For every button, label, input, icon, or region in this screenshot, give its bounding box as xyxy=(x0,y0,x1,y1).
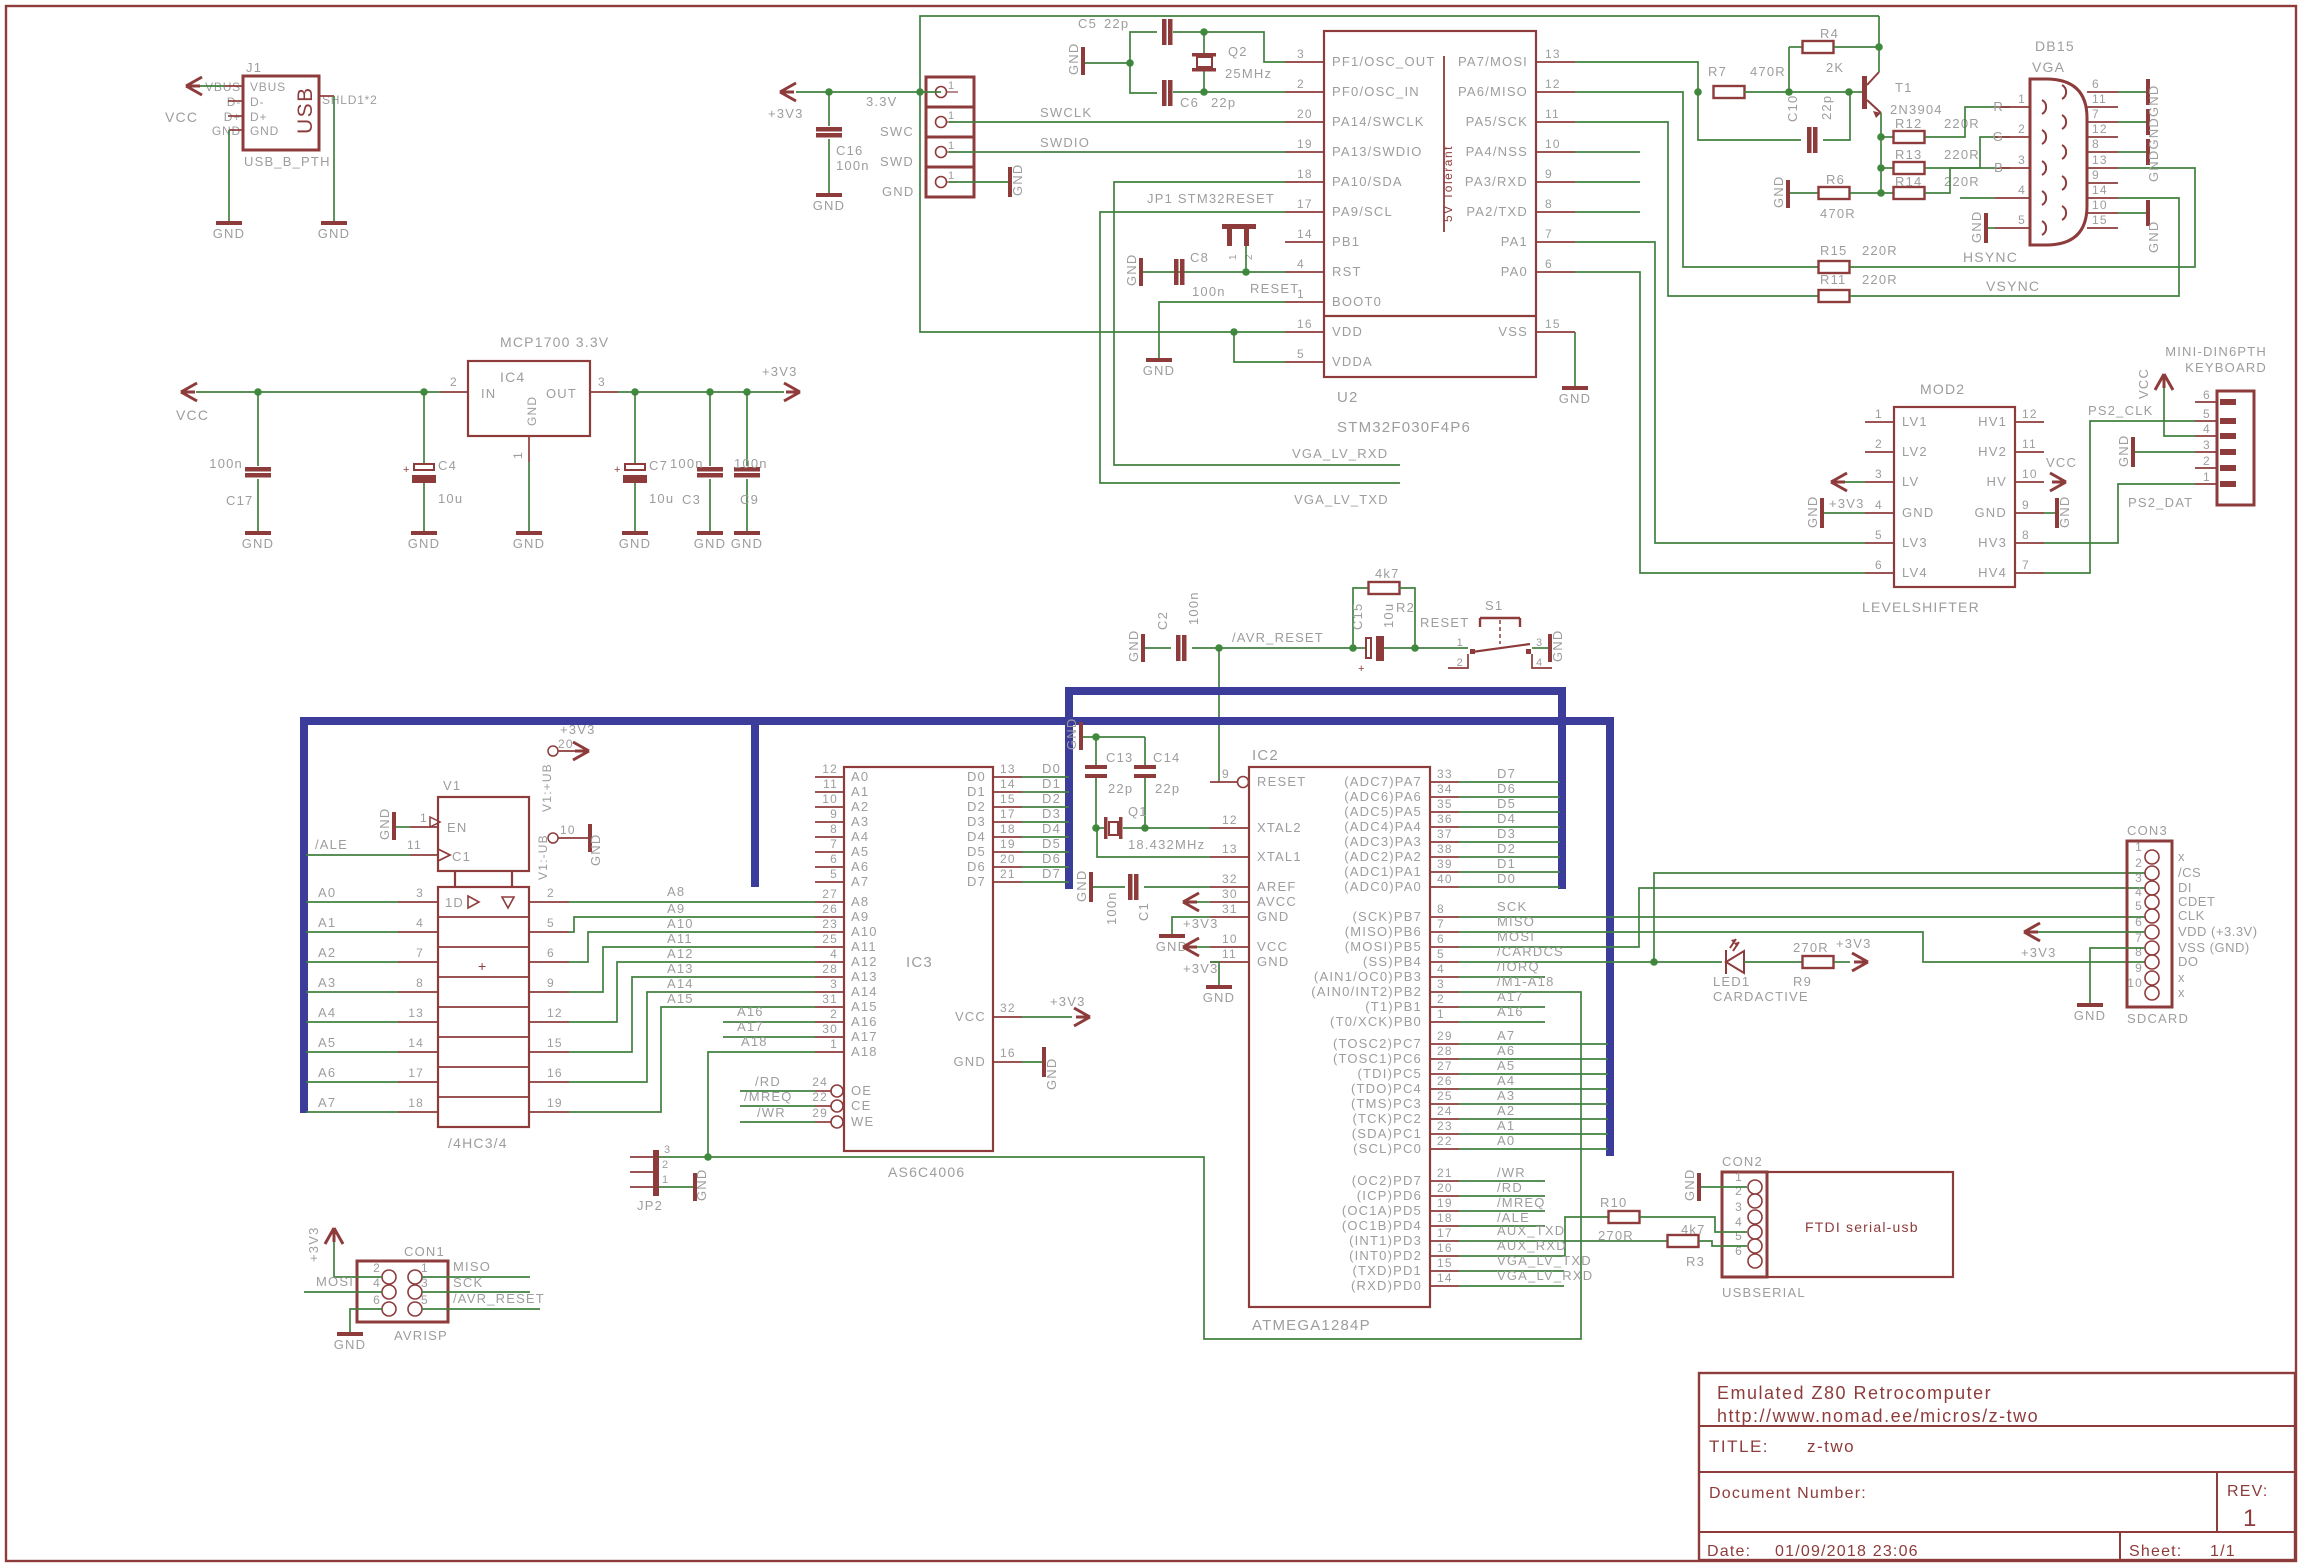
svg-text:2: 2 xyxy=(1875,437,1883,451)
svg-text:G: G xyxy=(1993,129,2004,144)
svg-text:B: B xyxy=(1994,160,2004,175)
junction RST xyxy=(1242,268,1250,276)
wire SCK (CON1) xyxy=(422,1275,530,1292)
junction base node xyxy=(1845,88,1853,96)
wire D0 (IC2) xyxy=(1459,871,1560,887)
svg-text:C6: C6 xyxy=(1180,95,1199,110)
svg-text:DB15: DB15 xyxy=(2035,38,2075,54)
svg-text:13: 13 xyxy=(1000,762,1016,776)
wire C2 left xyxy=(1145,647,1171,649)
svg-text:22p: 22p xyxy=(1211,95,1236,110)
svg-text:A4: A4 xyxy=(851,829,869,844)
svg-text:1: 1 xyxy=(948,140,955,152)
svg-text:VSYNC: VSYNC xyxy=(1986,278,2040,294)
ground (USB shield) xyxy=(318,221,351,241)
svg-text:PF0/OSC_IN: PF0/OSC_IN xyxy=(1332,84,1420,99)
wire D0 (IC3) xyxy=(1022,761,1069,777)
junction base/R4 xyxy=(1785,88,1793,96)
svg-text:100n: 100n xyxy=(836,158,870,173)
svg-text:C9: C9 xyxy=(740,492,759,507)
svg-text:4k7: 4k7 xyxy=(1375,566,1400,581)
svg-text:x: x xyxy=(2178,849,2185,864)
svg-text:MOD2: MOD2 xyxy=(1920,381,1965,397)
svg-text:A7: A7 xyxy=(851,874,869,889)
junction C15 right xyxy=(1411,644,1419,652)
svg-text:11: 11 xyxy=(1545,107,1560,121)
ground (VSS) xyxy=(1559,386,1592,406)
svg-text:(TCK)PC2: (TCK)PC2 xyxy=(1352,1111,1422,1126)
supply +3V3 (regulator out) xyxy=(762,364,800,401)
svg-text:GND: GND xyxy=(694,1169,709,1202)
svg-text:IC3: IC3 xyxy=(906,954,933,971)
junction C17 xyxy=(254,388,262,396)
wire /WR stub xyxy=(1459,1165,1545,1181)
svg-text:S1: S1 xyxy=(1485,598,1503,613)
svg-text:+3V3: +3V3 xyxy=(1829,496,1865,511)
SRAM IC3 AS6C4008 xyxy=(812,762,1022,1180)
svg-text:3: 3 xyxy=(421,1276,429,1290)
supply VCC (USB) xyxy=(165,77,202,125)
svg-text:23: 23 xyxy=(1437,1119,1453,1133)
svg-text:A18: A18 xyxy=(741,1034,768,1049)
svg-text:220R: 220R xyxy=(1944,147,1980,162)
svg-text:+: + xyxy=(403,464,411,476)
svg-text:A3: A3 xyxy=(851,814,869,829)
svg-text:A6: A6 xyxy=(318,1065,336,1080)
svg-text:20: 20 xyxy=(1437,1181,1453,1195)
svg-text:RESET: RESET xyxy=(1257,774,1306,789)
svg-text:D3: D3 xyxy=(967,814,986,829)
svg-text:1: 1 xyxy=(1228,253,1239,260)
svg-text:11: 11 xyxy=(823,777,838,791)
ground (C3) xyxy=(694,531,727,551)
wire R11 to pin14 xyxy=(1850,198,2179,296)
svg-text:+: + xyxy=(1358,663,1366,675)
svg-text:10: 10 xyxy=(560,823,576,837)
svg-text:470R: 470R xyxy=(1750,64,1786,79)
svg-text:26: 26 xyxy=(1437,1074,1453,1088)
svg-text:/IORQ: /IORQ xyxy=(1497,959,1540,974)
svg-text:R11: R11 xyxy=(1820,272,1846,287)
wire A11 xyxy=(569,931,815,992)
wire C6 branch xyxy=(1130,63,1157,93)
svg-text:GND: GND xyxy=(694,536,727,551)
svg-text:(SCK)PB7: (SCK)PB7 xyxy=(1352,909,1422,924)
wire D5 (IC2) xyxy=(1459,796,1560,812)
wire D2 (IC3) xyxy=(1022,791,1069,807)
junction VDDA tap xyxy=(1230,328,1238,336)
svg-text:13: 13 xyxy=(1545,47,1561,61)
svg-text:2: 2 xyxy=(1457,657,1464,669)
wire PA4 stub xyxy=(1575,151,1640,153)
svg-text:+3V3: +3V3 xyxy=(560,722,596,737)
svg-text:TITLE:: TITLE: xyxy=(1709,1437,1769,1456)
svg-text:9: 9 xyxy=(2092,168,2100,182)
capacitor C13 xyxy=(1085,737,1133,828)
svg-text:18: 18 xyxy=(1000,822,1016,836)
ground (VGA gnd2) xyxy=(2118,109,2150,135)
junction Q2 bottom xyxy=(1200,88,1208,96)
connector DB15 VGA xyxy=(1993,38,2118,245)
svg-text:37: 37 xyxy=(1437,827,1453,841)
svg-text:1: 1 xyxy=(1735,1170,1743,1184)
svg-text:VCC: VCC xyxy=(2136,368,2151,399)
svg-text:GND: GND xyxy=(1257,909,1290,924)
svg-text:/RD: /RD xyxy=(755,1074,781,1089)
wire D4 (IC2) xyxy=(1459,811,1560,827)
latch V1 74HC374 xyxy=(430,778,529,1151)
wire A8 xyxy=(569,884,815,902)
svg-text:C15: C15 xyxy=(1350,603,1365,630)
wire A4 addr xyxy=(1459,1073,1608,1089)
svg-text:(TMS)PC3: (TMS)PC3 xyxy=(1351,1096,1422,1111)
junction AVR_RESET xyxy=(1215,644,1223,652)
svg-text:15: 15 xyxy=(547,1036,563,1050)
wire PA7 to R7 xyxy=(1575,62,1698,92)
svg-text:11: 11 xyxy=(2092,92,2107,106)
wire A3 addr xyxy=(1459,1088,1608,1104)
svg-text:3: 3 xyxy=(1297,47,1305,61)
svg-text:4: 4 xyxy=(1875,498,1883,512)
svg-text:GND: GND xyxy=(954,1054,987,1069)
svg-text:4: 4 xyxy=(1536,657,1543,669)
svg-text:VGA_LV_TXD: VGA_LV_TXD xyxy=(1497,1253,1592,1268)
capacitor C15 xyxy=(1350,603,1415,675)
regulator IC4 box xyxy=(440,334,618,462)
wire R7-base xyxy=(1744,91,1789,93)
svg-text:EN: EN xyxy=(447,820,467,835)
resistor R13 xyxy=(1881,147,1980,174)
switch S1 xyxy=(1420,598,1552,669)
wire R15 to pin13 xyxy=(1850,168,2195,267)
svg-text:D0: D0 xyxy=(1497,871,1516,886)
svg-text:HSYNC: HSYNC xyxy=(1963,249,2018,265)
svg-text:GND: GND xyxy=(525,396,539,426)
svg-text:A17: A17 xyxy=(851,1029,878,1044)
supply VCC (regulator input) xyxy=(176,383,209,423)
svg-text:3: 3 xyxy=(416,886,424,900)
wire A3 to V1 xyxy=(306,975,569,992)
svg-text:4: 4 xyxy=(830,947,838,961)
svg-text:12: 12 xyxy=(1545,77,1561,91)
svg-text:+: + xyxy=(478,958,487,974)
svg-text:4: 4 xyxy=(1297,257,1305,271)
svg-text:A5: A5 xyxy=(318,1035,336,1050)
wire A16 stub xyxy=(723,1004,815,1022)
ground (IC3) xyxy=(1022,1047,1059,1090)
supply +3V3 (IC3) xyxy=(1022,994,1090,1026)
svg-text:R9: R9 xyxy=(1793,974,1812,989)
svg-text:GND: GND xyxy=(1975,505,2008,520)
svg-text:A12: A12 xyxy=(851,954,878,969)
ground (SWD pin4) xyxy=(1008,164,1025,198)
wire HSYNC xyxy=(1575,92,2018,267)
wire /CARDCS net xyxy=(1459,944,1654,962)
wire A7 to V1 xyxy=(306,1095,569,1112)
ground (IC4 GND pin) xyxy=(513,462,546,551)
microcontroller U2 STM32F030F4P6 xyxy=(1285,31,1575,436)
svg-text:C13: C13 xyxy=(1106,750,1133,765)
wire +3V3 rail xyxy=(618,391,784,393)
svg-text:Document Number:: Document Number: xyxy=(1709,1485,1867,1502)
svg-text:/MREQ: /MREQ xyxy=(1497,1195,1546,1210)
supply +3V3 (LED) xyxy=(1836,936,1872,971)
capacitor C9 xyxy=(734,392,768,531)
svg-text:C3: C3 xyxy=(682,492,701,507)
svg-text:A5: A5 xyxy=(1497,1058,1515,1073)
svg-text:100n: 100n xyxy=(1192,284,1226,299)
wire pin4 stub xyxy=(1960,197,1995,199)
junction C15 left xyxy=(1349,644,1357,652)
wire /MREQ xyxy=(740,1089,815,1106)
wire VDD rail xyxy=(920,92,1285,332)
svg-text:VGA_LV_RXD: VGA_LV_RXD xyxy=(1497,1268,1593,1283)
svg-text:22p: 22p xyxy=(1819,95,1834,120)
svg-text:LV4: LV4 xyxy=(1902,565,1928,580)
svg-text:+3V3: +3V3 xyxy=(1836,936,1872,951)
label GNDGNDGND xyxy=(2146,85,2161,182)
wire /ALE stub xyxy=(1459,1210,1545,1226)
svg-text:9: 9 xyxy=(2022,498,2030,512)
connector keyboard MINI-DIN6PTH xyxy=(2165,344,2267,505)
bus address vertical right xyxy=(1606,717,1614,1156)
svg-text:V1:-UB: V1:-UB xyxy=(536,834,550,880)
svg-text:14: 14 xyxy=(1297,227,1313,241)
svg-text:1: 1 xyxy=(2243,1505,2258,1532)
wire XTAL1 xyxy=(1097,828,1210,857)
svg-text:17: 17 xyxy=(1437,1226,1453,1240)
supply +3V3 (CON1) xyxy=(306,1226,382,1277)
svg-text:REV:: REV: xyxy=(2227,1483,2269,1500)
svg-text:(ADC6)PA6: (ADC6)PA6 xyxy=(1344,789,1422,804)
svg-text:2K: 2K xyxy=(1826,60,1844,75)
svg-text:GND: GND xyxy=(318,226,351,241)
svg-text:VGA_LV_RXD: VGA_LV_RXD xyxy=(1292,446,1388,461)
svg-text:(ADC2)PA2: (ADC2)PA2 xyxy=(1344,849,1422,864)
svg-text:PA0: PA0 xyxy=(1501,264,1528,279)
svg-text:C2: C2 xyxy=(1155,611,1170,630)
svg-text:8: 8 xyxy=(2022,528,2030,542)
svg-text:CLK: CLK xyxy=(2178,908,2205,923)
svg-text:A17: A17 xyxy=(1497,989,1524,1004)
svg-text:1: 1 xyxy=(2135,840,2143,854)
svg-text:VCC: VCC xyxy=(955,1009,986,1024)
svg-text:AUX_RXD: AUX_RXD xyxy=(1497,1238,1567,1253)
ground (CON2 pin1) xyxy=(1682,1169,1747,1202)
svg-text:7: 7 xyxy=(416,946,424,960)
svg-text:CDET: CDET xyxy=(2178,894,2215,909)
svg-text:VCC: VCC xyxy=(165,109,198,125)
wire /AVR_RESET xyxy=(1192,630,1353,648)
svg-text:VSS (GND): VSS (GND) xyxy=(2178,940,2250,955)
wire A14 xyxy=(569,976,815,1082)
wire A1 addr xyxy=(1459,1118,1608,1134)
svg-text:5: 5 xyxy=(1437,947,1445,961)
svg-text:R6: R6 xyxy=(1826,172,1845,187)
svg-text:23: 23 xyxy=(822,917,838,931)
svg-text:13: 13 xyxy=(408,1006,424,1020)
svg-text:VDD (+3.3V): VDD (+3.3V) xyxy=(2178,924,2258,939)
svg-text:5: 5 xyxy=(2203,407,2211,421)
svg-text:U2: U2 xyxy=(1337,389,1359,406)
svg-text:9: 9 xyxy=(830,807,838,821)
svg-text:3.3V: 3.3V xyxy=(866,94,898,109)
svg-text:D1: D1 xyxy=(1497,856,1516,871)
svg-text:SWDIO: SWDIO xyxy=(1040,135,1090,150)
svg-text:USBSERIAL: USBSERIAL xyxy=(1722,1285,1806,1300)
svg-text:R7: R7 xyxy=(1708,64,1727,79)
svg-text:30: 30 xyxy=(1222,887,1238,901)
crystal Q2 xyxy=(1192,32,1272,92)
svg-text:PA5/SCK: PA5/SCK xyxy=(1466,114,1528,129)
svg-text:7: 7 xyxy=(1545,227,1553,241)
wire A4 to V1 xyxy=(306,1005,569,1022)
svg-text:(ADC7)PA7: (ADC7)PA7 xyxy=(1344,774,1422,789)
ground (CON1) xyxy=(334,1332,367,1352)
svg-text:5: 5 xyxy=(1875,528,1883,542)
svg-text:(ADC3)PA3: (ADC3)PA3 xyxy=(1344,834,1422,849)
wire PS2_CLK xyxy=(2044,403,2195,573)
wire R10 to pin4 xyxy=(1640,1217,1747,1232)
svg-text:A13: A13 xyxy=(667,961,694,976)
supply +3V3 (V1) xyxy=(540,722,596,812)
junction C13 top xyxy=(1092,733,1100,741)
svg-text:Q1: Q1 xyxy=(1128,804,1148,819)
supply +3V3 (IC2 VCC) xyxy=(1183,938,1219,976)
svg-text:39: 39 xyxy=(1437,857,1453,871)
junction R7 left xyxy=(1694,88,1702,96)
svg-text:GND: GND xyxy=(1143,363,1176,378)
svg-text:A7: A7 xyxy=(318,1095,336,1110)
svg-text:GND: GND xyxy=(619,536,652,551)
wire VGA_LV_TXD stub xyxy=(1459,1253,1592,1271)
svg-text:VCC: VCC xyxy=(2046,455,2077,470)
resistor R3 xyxy=(1668,1222,1706,1269)
svg-text:(T1)PB1: (T1)PB1 xyxy=(1365,999,1422,1014)
resistor R14 xyxy=(1881,174,1980,199)
svg-text:AVCC: AVCC xyxy=(1257,894,1297,909)
junction R4 right xyxy=(1875,43,1883,51)
svg-text:VGA: VGA xyxy=(2032,59,2065,75)
svg-text:7: 7 xyxy=(1437,917,1445,931)
svg-text:OE: OE xyxy=(851,1083,872,1098)
svg-text:10: 10 xyxy=(2127,976,2143,990)
resistor R15 xyxy=(1819,243,1898,273)
svg-text:15: 15 xyxy=(2092,213,2108,227)
svg-text:VBUS: VBUS xyxy=(205,80,241,94)
USB connector J1 box xyxy=(205,60,378,169)
svg-text:25: 25 xyxy=(1437,1089,1453,1103)
svg-text:+3V3: +3V3 xyxy=(1183,961,1219,976)
capacitor C3 xyxy=(670,392,723,531)
svg-text:D5: D5 xyxy=(967,844,986,859)
svg-text:7: 7 xyxy=(830,837,838,851)
wire A5 to V1 xyxy=(306,1035,569,1052)
supply +3V3 (SD VDD) xyxy=(2021,923,2145,960)
junction A18/JP2 xyxy=(704,1153,712,1161)
svg-text:A1: A1 xyxy=(1497,1118,1515,1133)
svg-text:15: 15 xyxy=(1437,1256,1453,1270)
capacitor C1 (AREF) xyxy=(1093,874,1210,925)
svg-text:C16: C16 xyxy=(836,143,863,158)
svg-text:+3V3: +3V3 xyxy=(306,1226,321,1262)
wire PA3 stub xyxy=(1575,181,1640,183)
svg-text:8: 8 xyxy=(830,822,838,836)
wire A6 to V1 xyxy=(306,1065,569,1082)
ground (VGA pin5) xyxy=(1969,211,1988,244)
svg-text:PS2_DAT: PS2_DAT xyxy=(2128,495,2193,510)
svg-text:270R: 270R xyxy=(1793,940,1829,955)
svg-text:A1: A1 xyxy=(318,915,336,930)
svg-text:2: 2 xyxy=(2203,454,2211,468)
wire /WR xyxy=(740,1105,815,1122)
ground (C17) xyxy=(242,531,275,551)
svg-text:1: 1 xyxy=(420,811,428,825)
svg-text:R13: R13 xyxy=(1895,147,1922,162)
svg-text:18: 18 xyxy=(1437,1211,1453,1225)
wire D3 (IC2) xyxy=(1459,826,1560,842)
capacitor C5 xyxy=(1078,16,1173,45)
svg-text:C1: C1 xyxy=(1136,902,1151,921)
svg-text:20: 20 xyxy=(558,737,574,751)
svg-text:6: 6 xyxy=(1875,558,1883,572)
svg-text:2: 2 xyxy=(373,1261,381,1275)
resistor R9 xyxy=(1793,940,1834,989)
junction C7 xyxy=(631,388,639,396)
svg-text:R12: R12 xyxy=(1895,116,1922,131)
bus vertical IC3 xyxy=(1065,687,1073,889)
ground (C7) xyxy=(619,531,652,551)
svg-text:VCC: VCC xyxy=(176,407,209,423)
wire CON1 gnd xyxy=(350,1309,382,1332)
svg-text:2: 2 xyxy=(547,886,555,900)
svg-text:HV1: HV1 xyxy=(1978,414,2007,429)
wire /ALE xyxy=(306,837,438,855)
pin stubs J1 xyxy=(225,86,334,130)
svg-text:C1: C1 xyxy=(452,849,471,864)
svg-text:5: 5 xyxy=(2135,899,2143,913)
svg-text:LV1: LV1 xyxy=(1902,414,1928,429)
svg-text:3: 3 xyxy=(664,1144,671,1156)
svg-text:R15: R15 xyxy=(1820,243,1847,258)
svg-text:22: 22 xyxy=(1437,1134,1453,1148)
svg-text:9: 9 xyxy=(2135,961,2143,975)
svg-text:A15: A15 xyxy=(851,999,878,1014)
svg-text:PA6/MISO: PA6/MISO xyxy=(1458,84,1528,99)
svg-text:19: 19 xyxy=(1297,137,1313,151)
svg-text:D5: D5 xyxy=(1042,836,1061,851)
svg-text:SWD: SWD xyxy=(880,154,914,169)
capacitor C2 xyxy=(1155,591,1201,661)
wire A5 addr xyxy=(1459,1058,1608,1074)
svg-text:13: 13 xyxy=(1222,842,1238,856)
svg-text:7: 7 xyxy=(2022,558,2030,572)
svg-text:(ADC1)PA1: (ADC1)PA1 xyxy=(1344,864,1422,879)
svg-text:GND: GND xyxy=(1010,164,1025,197)
wire /AVR_RESET (CON1) xyxy=(422,1291,545,1309)
svg-text:(SDA)PC1: (SDA)PC1 xyxy=(1352,1126,1422,1141)
svg-text:1: 1 xyxy=(948,170,955,182)
svg-text:6: 6 xyxy=(2135,915,2143,929)
svg-text:35: 35 xyxy=(1437,797,1453,811)
svg-text:32: 32 xyxy=(1000,1001,1016,1015)
svg-text:3: 3 xyxy=(830,977,838,991)
svg-text:2N3904: 2N3904 xyxy=(1890,102,1943,117)
wire JP1 to RST xyxy=(1245,246,1247,272)
svg-text:/AVR_RESET: /AVR_RESET xyxy=(1232,630,1324,645)
transistor T1 2N3904 xyxy=(1849,50,1943,118)
svg-text:GND: GND xyxy=(213,226,246,241)
